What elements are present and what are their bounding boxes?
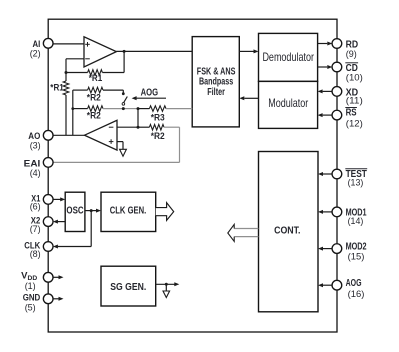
svg-text:*R2: *R2 [87, 92, 101, 102]
svg-text:(14): (14) [348, 216, 364, 227]
svg-text:(2): (2) [30, 49, 41, 60]
svg-text:Filter: Filter [207, 87, 225, 98]
svg-text:CONT.: CONT. [274, 226, 301, 237]
svg-text:(5): (5) [25, 303, 36, 314]
svg-text:*R3: *R3 [151, 113, 165, 123]
svg-text:(4): (4) [30, 168, 41, 179]
svg-text:*R1: *R1 [50, 82, 64, 92]
svg-text:CLK GEN.: CLK GEN. [110, 206, 147, 217]
svg-text:(6): (6) [30, 202, 41, 213]
svg-text:OSC: OSC [66, 206, 83, 217]
svg-text:(16): (16) [348, 289, 365, 300]
svg-text:SG GEN.: SG GEN. [110, 282, 146, 293]
svg-text:(15): (15) [348, 252, 365, 263]
svg-text:(10): (10) [346, 72, 363, 83]
svg-text:(11): (11) [346, 95, 363, 106]
svg-text:Bandpass: Bandpass [199, 77, 234, 88]
svg-text:Modulator: Modulator [268, 96, 308, 110]
svg-text:AOG: AOG [141, 87, 159, 98]
svg-text:*R1: *R1 [89, 73, 103, 83]
svg-text:(8): (8) [30, 249, 41, 260]
svg-text:Demodulator: Demodulator [262, 50, 314, 64]
svg-text:(1): (1) [25, 281, 36, 292]
svg-text:RS: RS [346, 108, 357, 119]
svg-text:(7): (7) [30, 224, 41, 235]
svg-text:(3): (3) [30, 141, 41, 152]
svg-text:*R2: *R2 [151, 131, 165, 141]
svg-text:AOG: AOG [346, 278, 362, 289]
svg-text:(9): (9) [346, 49, 357, 60]
svg-text:(13): (13) [348, 178, 364, 189]
svg-text:*R2: *R2 [87, 111, 101, 121]
svg-text:(12): (12) [346, 119, 363, 130]
